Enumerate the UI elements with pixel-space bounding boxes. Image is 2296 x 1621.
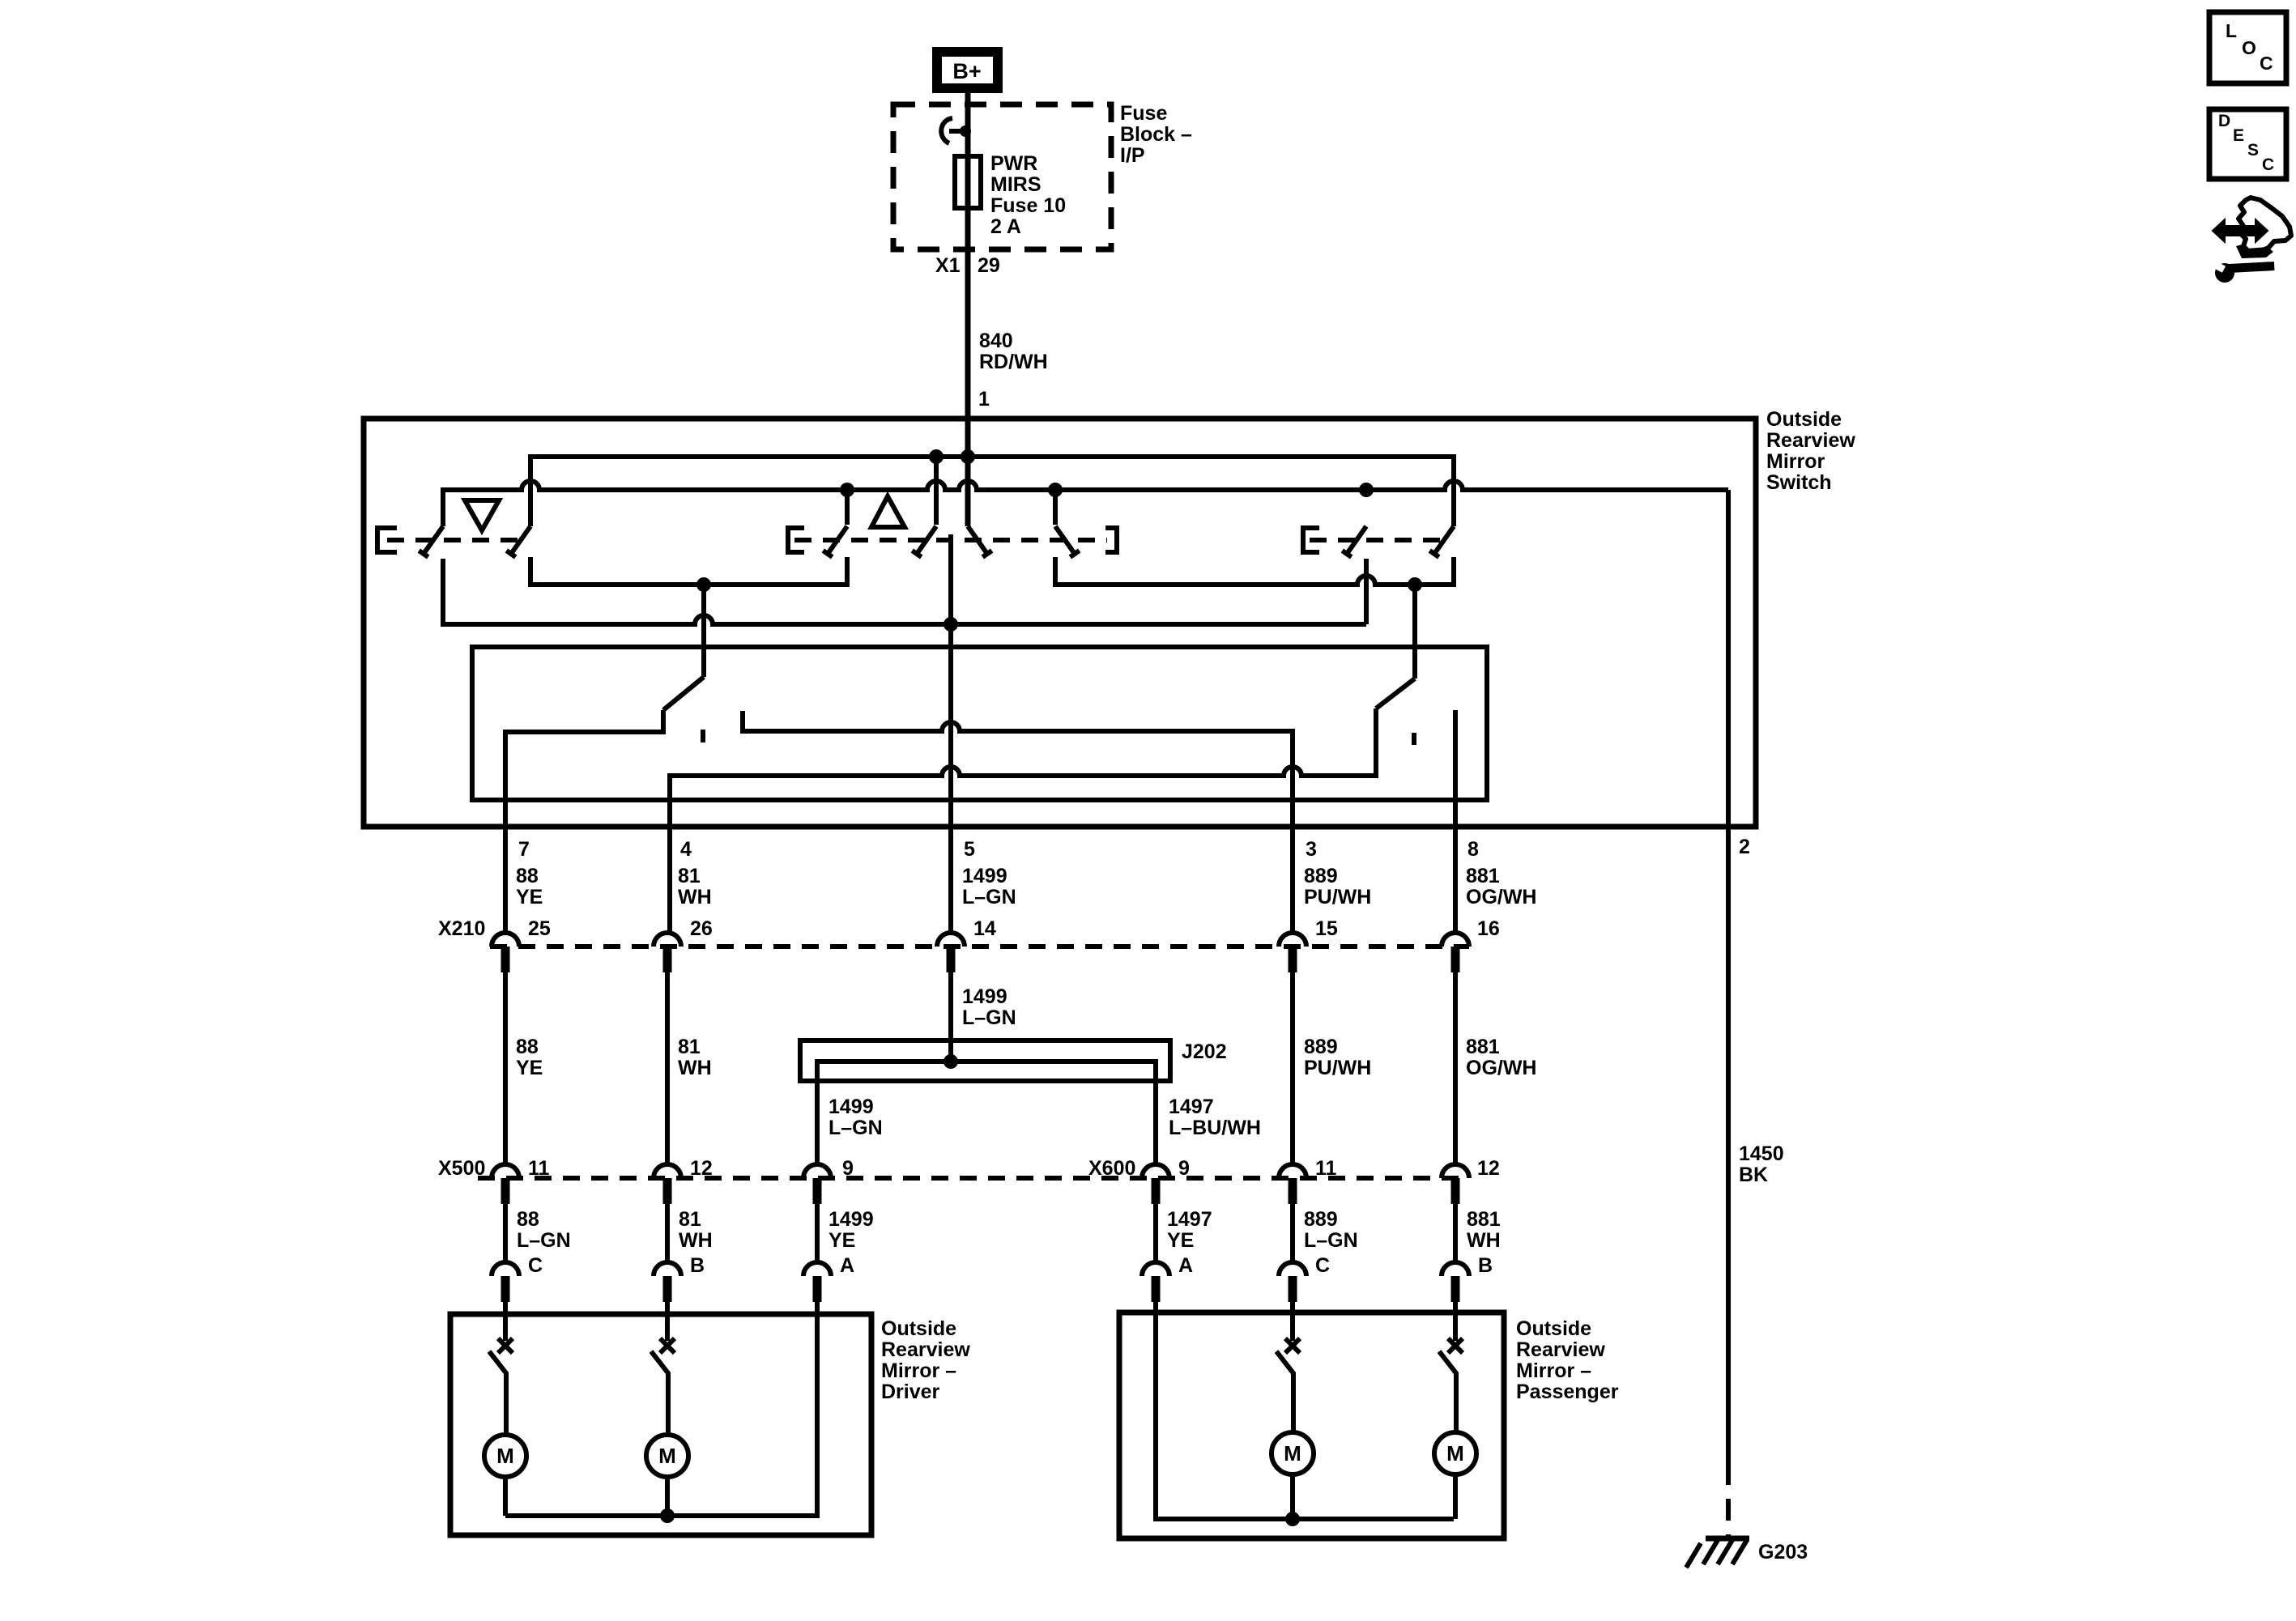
select switch right blade (1376, 679, 1415, 708)
outside rearview mirror passenger box (1119, 1313, 1504, 1538)
driver leftright contact (660, 1338, 675, 1353)
svg-text:B: B (690, 1254, 705, 1277)
passenger leftright wire (1453, 1320, 1458, 1341)
svg-text:J202: J202 (1182, 1040, 1227, 1063)
switch blade RR (1434, 526, 1454, 554)
svg-text:1499: 1499 (829, 1208, 874, 1231)
driver common rail (505, 1314, 817, 1516)
svg-text:9: 9 (1178, 1157, 1190, 1180)
rail4 common bus (443, 559, 1366, 624)
svg-text:1499: 1499 (829, 1096, 874, 1118)
junction rail2 switch RL (1359, 483, 1374, 497)
svg-text:L–GN: L–GN (962, 886, 1016, 908)
motor M driver horizontal (646, 1435, 688, 1477)
svg-text:PU/WH: PU/WH (1304, 1057, 1371, 1079)
connector X210 pin 26 (654, 933, 681, 947)
svg-text:1499: 1499 (962, 985, 1007, 1008)
svg-text:L–GN: L–GN (517, 1229, 571, 1252)
svg-text:Outside: Outside (1766, 408, 1842, 431)
svg-text:M: M (1446, 1441, 1464, 1466)
wire 889 PU/WH mid (1290, 972, 1295, 1164)
select switch left pivot wire (701, 585, 706, 677)
svg-text:881: 881 (1466, 1036, 1500, 1058)
B+ battery feed box (937, 52, 998, 88)
splice J202 bus (817, 1062, 1156, 1164)
switch blade LL (424, 526, 443, 554)
svg-text:M: M (658, 1444, 676, 1468)
svg-text:OG/WH: OG/WH (1466, 1057, 1537, 1079)
triangle down mirror-select (465, 500, 499, 530)
motor M driver vertical (484, 1435, 526, 1477)
wire into mirror mirror conn B driver (665, 1302, 670, 1320)
svg-text:L: L (2226, 20, 2237, 41)
wire into mirror mirror conn C passenger (1290, 1302, 1295, 1320)
svg-text:2 A: 2 A (990, 215, 1021, 238)
mirror select sub-box (472, 647, 1487, 800)
select switch right pivot wire (1412, 585, 1417, 679)
switch blade RL (1347, 526, 1366, 554)
svg-text:C: C (2262, 155, 2274, 174)
svg-text:Rearview: Rearview (1516, 1338, 1605, 1361)
junction rail3 right (1408, 577, 1422, 592)
wire into mirror mirror conn B passenger (1453, 1302, 1458, 1320)
svg-text:YE: YE (829, 1229, 855, 1252)
svg-text:11: 11 (1315, 1157, 1337, 1180)
connector X210 pin 16 (1442, 933, 1469, 947)
select switch left contact tick (701, 730, 705, 742)
svg-text:11: 11 (528, 1157, 550, 1180)
svg-text:88: 88 (517, 1208, 539, 1231)
svg-text:Mirror –: Mirror – (1516, 1359, 1591, 1382)
fuse PWR MIRS body (955, 156, 981, 208)
linkage bracket right group (1303, 528, 1319, 552)
svg-text:YE: YE (1167, 1229, 1194, 1252)
svg-text:3: 3 (1306, 838, 1317, 861)
svg-text:BK: BK (1739, 1164, 1768, 1186)
svg-text:PU/WH: PU/WH (1304, 886, 1371, 908)
switch CL contact stub to rail3 (530, 557, 847, 585)
svg-text:1450: 1450 (1739, 1142, 1784, 1165)
linkage dashes right group (1310, 538, 1450, 542)
svg-text:L–BU/WH: L–BU/WH (1169, 1117, 1261, 1139)
svg-text:889: 889 (1304, 865, 1338, 887)
passenger motor2 wire (1453, 1474, 1458, 1519)
junction rail1 feed (961, 449, 975, 464)
wire 81 WH door (665, 1204, 670, 1262)
icon LOC box (2209, 12, 2286, 83)
switch blade CM-left (917, 526, 936, 554)
svg-text:81: 81 (678, 1036, 701, 1058)
junction rail4 pole (944, 617, 958, 632)
connector X500 X600 dashed line (478, 1176, 1467, 1181)
triangle up mirror-select (871, 496, 905, 527)
svg-text:29: 29 (978, 254, 1000, 277)
svg-text:Block –: Block – (1120, 123, 1192, 146)
svg-text:2: 2 (1739, 836, 1750, 858)
svg-text:G203: G203 (1758, 1541, 1808, 1564)
svg-text:MIRS: MIRS (990, 173, 1042, 196)
svg-text:Rearview: Rearview (881, 1338, 970, 1361)
svg-text:YE: YE (516, 1057, 543, 1079)
svg-text:E: E (2233, 126, 2244, 145)
connector X210 pin 15 (1279, 933, 1306, 947)
passenger motor1 wire (1290, 1474, 1295, 1519)
icon repair hand arrow (2238, 198, 2291, 252)
fuse clip contact (941, 118, 952, 143)
svg-text:X1: X1 (935, 254, 961, 277)
svg-text:B: B (1478, 1254, 1493, 1277)
svg-text:Driver: Driver (881, 1381, 940, 1403)
linkage bracket center group open (788, 528, 804, 552)
passenger updown wire (1290, 1320, 1295, 1341)
passenger leftright breaker blade (1439, 1351, 1456, 1432)
junction J202 (944, 1054, 958, 1069)
svg-text:7: 7 (518, 838, 530, 861)
wire 881 OG/WH mid (1453, 972, 1458, 1164)
svg-text:26: 26 (690, 917, 713, 940)
svg-text:25: 25 (528, 917, 551, 940)
driver motor1 ground wire (503, 1477, 508, 1516)
mirror conn C driver (492, 1262, 519, 1276)
svg-text:PWR: PWR (990, 152, 1037, 175)
svg-text:88: 88 (516, 1036, 539, 1058)
center pole wire pin5 (948, 534, 953, 934)
wire 81 WH mid (665, 972, 670, 1164)
wire pin8 from right throw (1453, 710, 1458, 934)
linkage bracket left group (377, 528, 397, 552)
select switch right throw to pin4 (670, 708, 1376, 934)
select switch right contact tick (1412, 733, 1416, 745)
wire into mirror mirror conn A driver (815, 1302, 820, 1320)
svg-text:16: 16 (1477, 917, 1500, 940)
wire pin2 ground feed (1726, 490, 1731, 1463)
icon DESC box (2209, 109, 2286, 179)
junction rail2 switch CR (1048, 483, 1063, 497)
svg-text:5: 5 (964, 838, 975, 861)
wire pin2 dashed section (1726, 1463, 1731, 1537)
wire 1499 YE door (815, 1204, 820, 1262)
ground G203 symbol (1706, 1536, 1749, 1542)
junction driver common (660, 1508, 675, 1523)
svg-text:C: C (2260, 53, 2273, 74)
switch CR contact stub to rail3r (1055, 557, 1454, 585)
svg-text:88: 88 (516, 865, 539, 887)
svg-text:A: A (840, 1254, 854, 1277)
outside rearview mirror switch box (364, 419, 1756, 827)
svg-text:C: C (1315, 1254, 1330, 1277)
svg-text:L–GN: L–GN (829, 1117, 883, 1139)
svg-text:Passenger: Passenger (1516, 1381, 1619, 1403)
wire 88 YE mid (503, 972, 508, 1164)
junction rail2 switch CL (840, 483, 854, 497)
connector X600 pin 12 (1442, 1164, 1469, 1178)
switch blade LR (511, 526, 530, 554)
driver updown breaker blade (489, 1351, 506, 1435)
svg-text:Outside: Outside (1516, 1317, 1591, 1340)
wire into mirror mirror conn C driver (503, 1302, 508, 1320)
switch blade CM-right (968, 526, 987, 554)
svg-text:Mirror –: Mirror – (881, 1359, 956, 1382)
wire 1499 L-GN to J202 (948, 972, 953, 1062)
junction rail1 left pivot (929, 449, 944, 464)
svg-text:WH: WH (679, 1229, 713, 1252)
svg-text:Outside: Outside (881, 1317, 956, 1340)
svg-text:881: 881 (1466, 865, 1500, 887)
svg-text:WH: WH (678, 1057, 712, 1079)
driver updown contact (498, 1338, 513, 1353)
svg-text:15: 15 (1315, 917, 1338, 940)
svg-text:4: 4 (680, 838, 692, 861)
svg-text:1497: 1497 (1169, 1096, 1214, 1118)
connector X500 pin 9 (803, 1164, 831, 1178)
svg-text:YE: YE (516, 886, 543, 908)
svg-text:X500: X500 (438, 1157, 485, 1180)
junction passenger common (1285, 1512, 1300, 1526)
svg-text:RD/WH: RD/WH (979, 351, 1048, 373)
splice block J202 (800, 1040, 1170, 1081)
svg-text:9: 9 (842, 1157, 854, 1180)
rail2 second bus (443, 481, 1728, 526)
svg-text:D: D (2218, 112, 2230, 130)
switch CL pivot stub (845, 490, 850, 525)
linkage dashes center group (794, 538, 1107, 542)
switch blade CL (828, 526, 847, 554)
svg-text:Mirror: Mirror (1766, 450, 1825, 473)
svg-text:889: 889 (1304, 1208, 1338, 1231)
svg-text:WH: WH (1467, 1229, 1501, 1252)
svg-text:L–GN: L–GN (1304, 1229, 1358, 1252)
driver leftright breaker blade (651, 1351, 668, 1435)
connector X210 pin 25 (492, 933, 519, 947)
connector X210 pin 14 (937, 933, 965, 947)
svg-text:M: M (1284, 1441, 1301, 1466)
svg-text:WH: WH (678, 886, 712, 908)
wire 1497 YE door (1153, 1204, 1158, 1262)
mirror conn C passenger (1279, 1262, 1306, 1276)
svg-text:12: 12 (1477, 1157, 1500, 1180)
outside rearview mirror driver box (450, 1314, 871, 1535)
driver leftright wire (665, 1320, 670, 1341)
passenger updown contact (1285, 1338, 1300, 1353)
svg-text:81: 81 (679, 1208, 701, 1231)
wire 881 WH door (1453, 1204, 1458, 1262)
connector X500 pin 12 (654, 1164, 681, 1178)
switch RL contact stub (1364, 559, 1369, 624)
switch CM-left pivot (934, 457, 939, 525)
linkage bracket center group close (1105, 528, 1117, 552)
svg-text:L–GN: L–GN (962, 1006, 1016, 1029)
mirror conn A passenger (1142, 1262, 1169, 1276)
svg-text:B+: B+ (952, 59, 981, 83)
svg-text:Rearview: Rearview (1766, 429, 1855, 452)
select switch left blade (663, 677, 704, 710)
junction rail3 left (696, 577, 711, 592)
passenger leftright contact (1448, 1338, 1463, 1353)
svg-text:1497: 1497 (1167, 1208, 1212, 1231)
passenger updown breaker blade (1276, 1351, 1293, 1432)
select switch left throw to pin7 (505, 710, 663, 934)
svg-text:881: 881 (1467, 1208, 1501, 1231)
svg-text:Switch: Switch (1766, 471, 1832, 494)
svg-text:A: A (1178, 1254, 1193, 1277)
linkage dashes left group (387, 538, 522, 542)
fuse block dashed box (893, 104, 1111, 249)
svg-text:Fuse: Fuse (1120, 102, 1167, 125)
mirror conn B driver (654, 1262, 681, 1276)
select switch left throw to pin3 (743, 711, 1293, 934)
mirror conn A driver (803, 1262, 831, 1276)
svg-text:81: 81 (678, 865, 701, 887)
wire battery feed 840 vertical (965, 93, 971, 526)
svg-text:O: O (2242, 37, 2256, 58)
svg-text:12: 12 (690, 1157, 713, 1180)
passenger common feed (1156, 1313, 1454, 1519)
svg-text:X600: X600 (1088, 1157, 1135, 1180)
connector X600 pin 11 (1279, 1164, 1306, 1178)
svg-text:840: 840 (979, 330, 1013, 352)
driver motor2 ground wire (665, 1477, 670, 1516)
switch CR pivot stub (1053, 490, 1058, 525)
svg-text:1499: 1499 (962, 865, 1007, 887)
driver updown wire (503, 1320, 508, 1341)
switch blade CR (1055, 526, 1075, 554)
motor M passenger vertical (1272, 1432, 1314, 1474)
svg-text:C: C (528, 1254, 543, 1277)
svg-text:M: M (496, 1444, 514, 1468)
wire into mirror mirror conn A passenger (1153, 1302, 1158, 1320)
svg-text:OG/WH: OG/WH (1466, 886, 1537, 908)
rail1 B+ bus top (530, 457, 1454, 526)
wire 889 L-GN door (1290, 1204, 1295, 1262)
svg-text:8: 8 (1467, 838, 1479, 861)
svg-text:X210: X210 (438, 917, 485, 940)
connector X600 pin 9 (1142, 1164, 1169, 1178)
connector X500 pin 11 (492, 1164, 519, 1178)
svg-text:I/P: I/P (1120, 144, 1145, 167)
svg-text:889: 889 (1304, 1036, 1338, 1058)
connector X210 dashed line (490, 944, 1469, 949)
motor M passenger horizontal (1434, 1432, 1476, 1474)
wire 88 L-GN door (503, 1204, 508, 1262)
mirror conn B passenger (1442, 1262, 1469, 1276)
svg-text:Fuse 10: Fuse 10 (990, 194, 1066, 217)
svg-text:S: S (2247, 141, 2259, 160)
svg-text:14: 14 (973, 917, 996, 940)
svg-text:1: 1 (978, 388, 990, 411)
